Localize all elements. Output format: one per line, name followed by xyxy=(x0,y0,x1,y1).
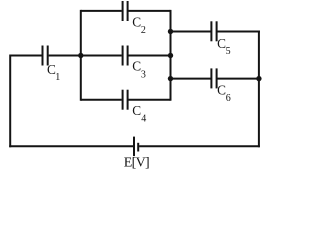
wire top: left column to C2 xyxy=(81,10,122,12)
node C5-branch junction xyxy=(168,29,173,34)
svg-text:C: C xyxy=(132,58,141,73)
svg-text:2: 2 xyxy=(141,25,146,36)
svg-text:5: 5 xyxy=(226,46,231,57)
node A junction xyxy=(78,53,83,58)
wire C6 branch: C6 to right wire xyxy=(218,78,259,80)
label C2 xyxy=(132,14,146,36)
label C5 xyxy=(217,36,231,57)
label C6 xyxy=(217,83,231,105)
capacitor C4 xyxy=(123,90,128,110)
svg-text:C: C xyxy=(132,103,141,118)
wire C6 branch: mid column to C6 xyxy=(171,78,211,80)
node C6-branch junction xyxy=(168,76,173,81)
label C4 xyxy=(132,103,146,124)
svg-text:1: 1 xyxy=(55,72,60,83)
svg-text:4: 4 xyxy=(141,113,146,124)
wire left vertical xyxy=(9,55,11,148)
wire middle: C3 to node B xyxy=(129,55,171,57)
label C1 xyxy=(47,62,60,83)
node right C6 junction xyxy=(256,76,261,81)
wire C5 branch: mid column to C5 xyxy=(171,31,211,33)
wire bottom branch: left column to C4 xyxy=(81,99,122,101)
capacitor C5 xyxy=(211,21,216,41)
svg-text:3: 3 xyxy=(141,69,146,80)
capacitor C1 xyxy=(43,46,48,66)
capacitor C2 xyxy=(123,1,128,21)
capacitor C6 xyxy=(211,68,216,88)
wire middle: C1 to node A xyxy=(49,55,81,57)
wire bottom left segment xyxy=(9,145,133,147)
wire middle: left wire to C1 xyxy=(10,55,41,57)
label C3 xyxy=(132,58,146,80)
node C3-branch junction xyxy=(168,53,173,58)
wire right vertical xyxy=(258,31,260,148)
wire left column vertical xyxy=(80,10,82,101)
wire middle: node A to C3 xyxy=(81,55,122,57)
svg-text:E[V]: E[V] xyxy=(124,155,149,170)
svg-text:C: C xyxy=(132,14,141,29)
capacitor C3 xyxy=(123,46,128,66)
wire mid column vertical xyxy=(170,10,172,101)
wire bottom branch: C4 to mid column xyxy=(129,99,171,101)
wire bottom right segment xyxy=(139,145,260,147)
battery E xyxy=(134,137,138,157)
wire C5 branch: C5 to right wire xyxy=(218,31,260,33)
wire top: C2 to mid column xyxy=(129,10,171,12)
svg-text:6: 6 xyxy=(226,93,231,104)
